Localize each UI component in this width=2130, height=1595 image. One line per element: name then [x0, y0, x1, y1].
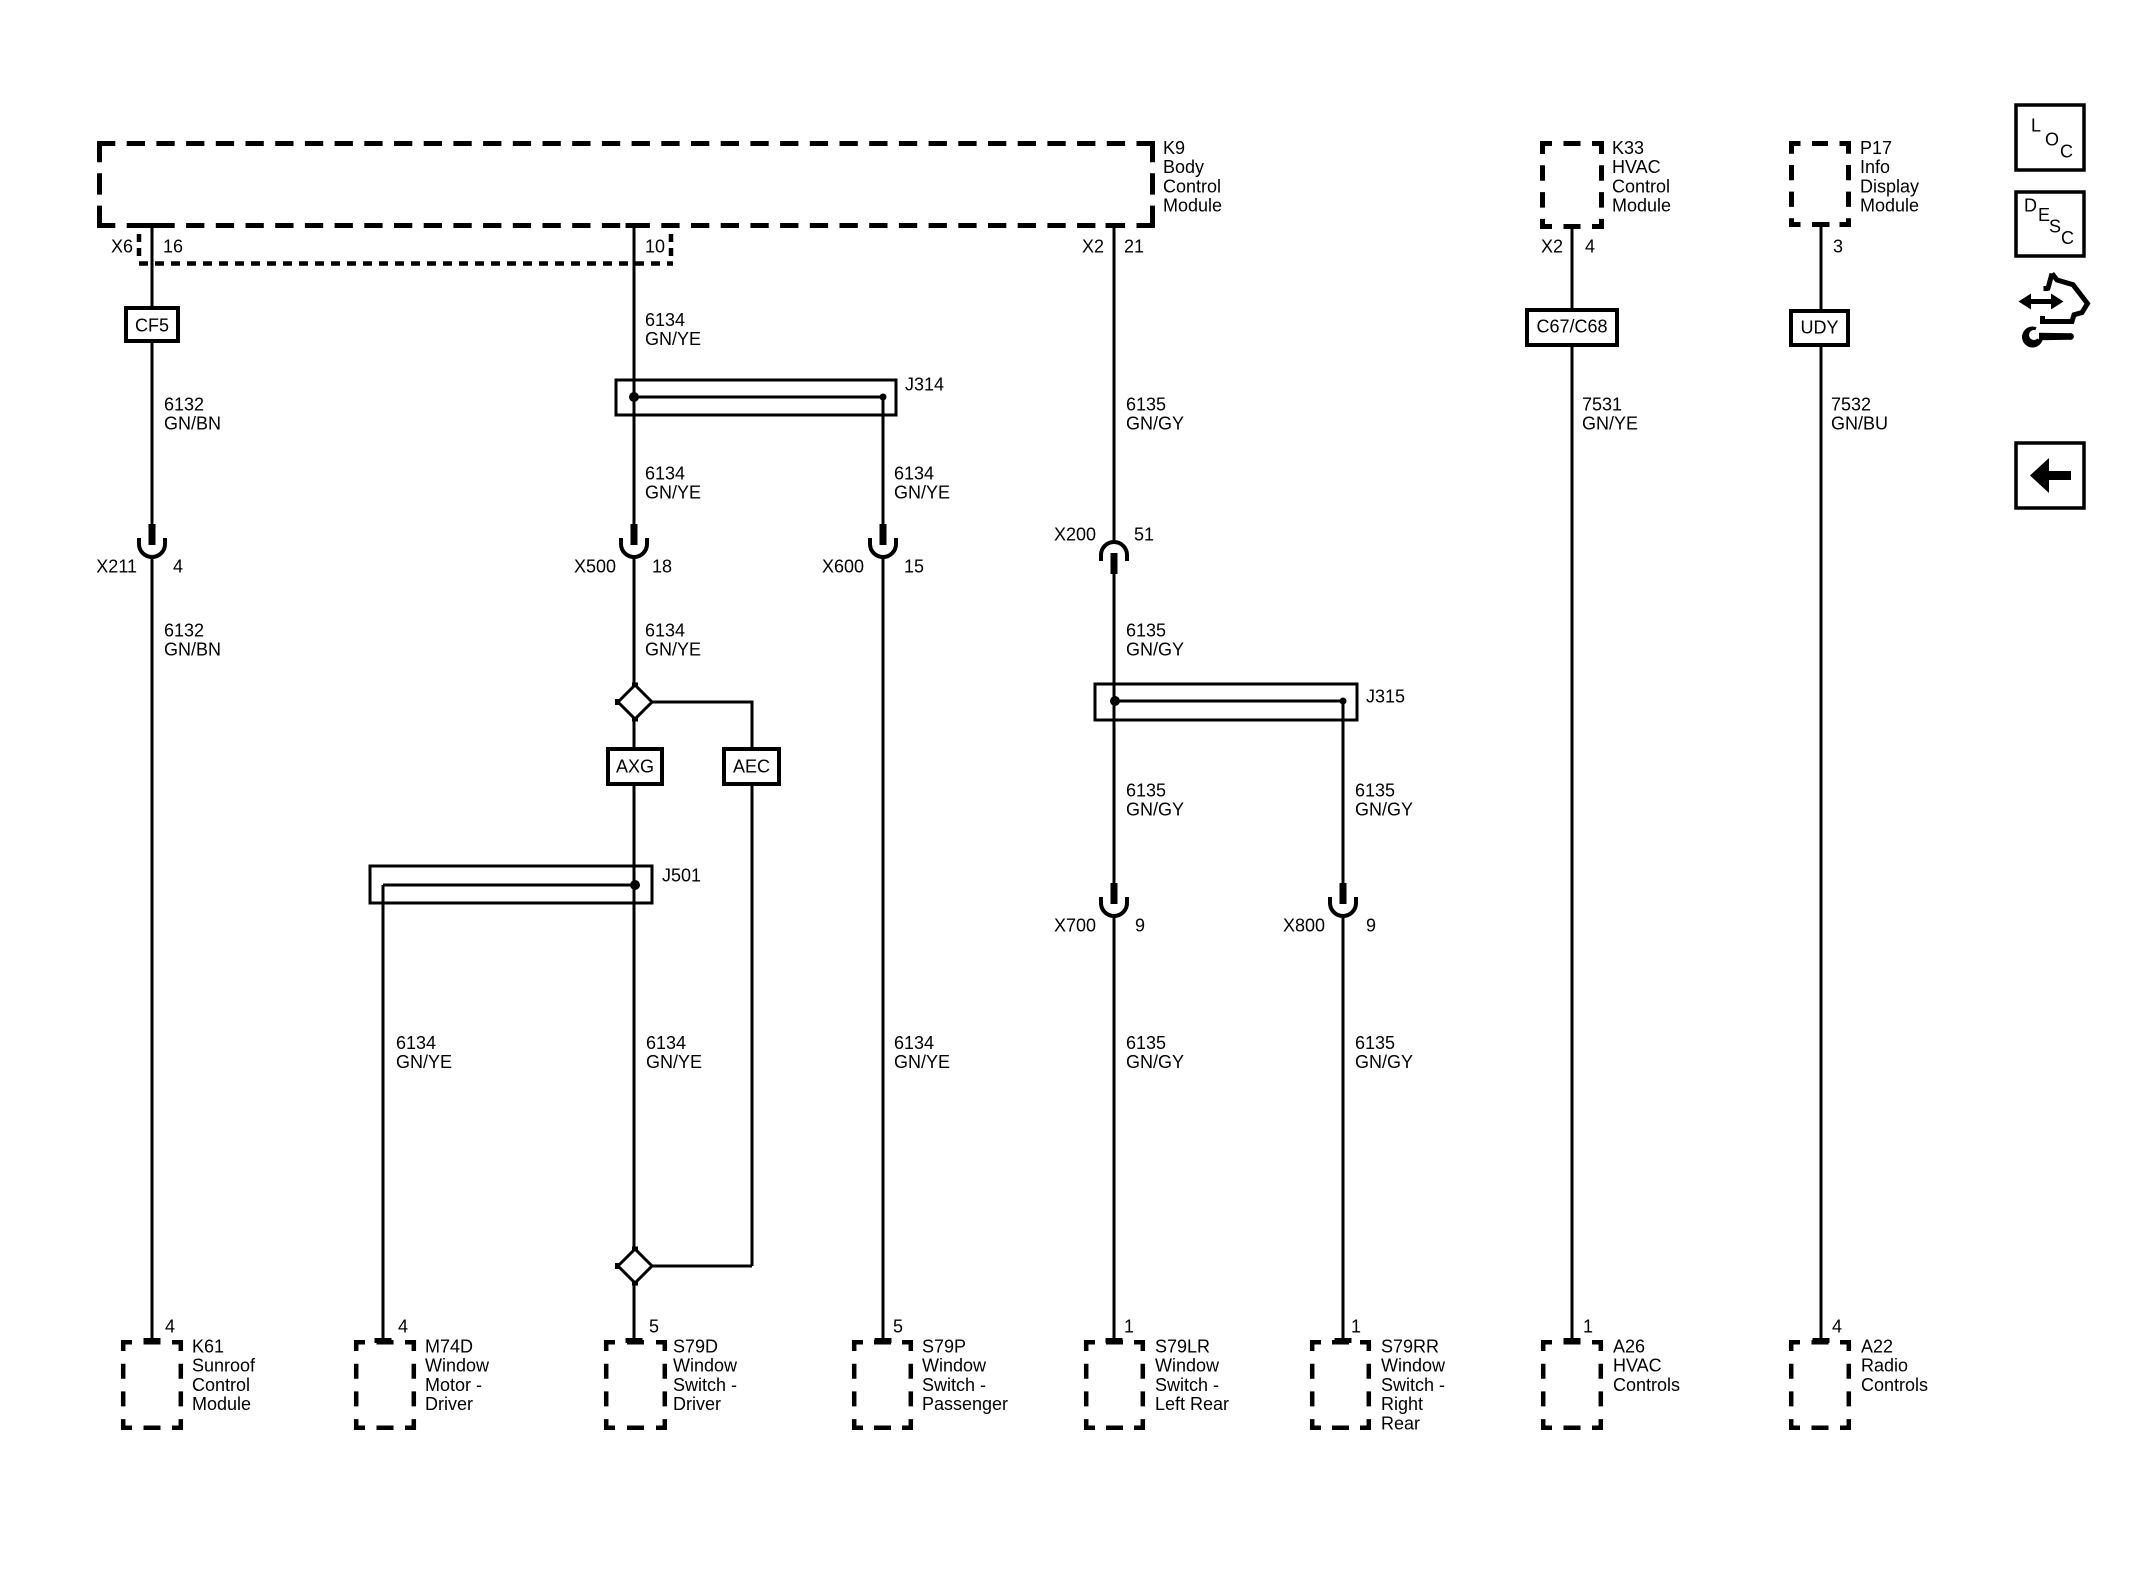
module S79LR Window Switch Left Rear (dashed box) [1084, 1340, 1145, 1430]
wire node to AXG [633, 718, 636, 750]
svg-text:6134: 6134 [645, 464, 685, 484]
wire J315 right drop to X800 [1342, 701, 1345, 885]
svg-text:6134: 6134 [646, 1033, 686, 1053]
splice J315 [1095, 684, 1405, 720]
wire X600 to S79P [882, 558, 885, 1341]
wire X800 to S79RR [1342, 917, 1345, 1341]
module K33 HVAC Control Module (dashed box) [1540, 141, 1604, 229]
wire label 6134 GN/YE (M74D branch) [396, 1033, 452, 1072]
wire label 6135 GN/GY (S79RR branch) [1355, 1033, 1413, 1072]
splice J501 [370, 866, 701, 904]
connector X200 (flipped) [1054, 525, 1154, 575]
svg-text:A22: A22 [1861, 1337, 1893, 1357]
S79P label [922, 1337, 1008, 1415]
svg-text:GN/YE: GN/YE [1582, 413, 1638, 433]
module S79RR Window Switch Right Rear (dashed box) [1310, 1340, 1371, 1430]
svg-text:UDY: UDY [1800, 318, 1838, 338]
svg-text:GN/GY: GN/GY [1355, 799, 1413, 819]
svg-text:Sunroof: Sunroof [192, 1356, 256, 1376]
wire X211 to K61 [151, 558, 154, 1341]
svg-text:4: 4 [173, 557, 183, 577]
svg-text:GN/GY: GN/GY [1355, 1052, 1413, 1072]
module P17 Info Display Module (dashed box) [1789, 141, 1851, 227]
svg-text:X6: X6 [111, 237, 133, 257]
wire C67/C68 to A26 [1571, 345, 1574, 1341]
svg-text:4: 4 [1832, 1317, 1842, 1337]
svg-text:18: 18 [652, 557, 672, 577]
connector X2 pin 21 label [1082, 237, 1144, 257]
svg-text:6135: 6135 [1126, 621, 1166, 641]
wire J501 to M74D [382, 885, 385, 1341]
svg-text:Rear: Rear [1381, 1413, 1420, 1433]
wire X500 to node [633, 558, 636, 686]
svg-text:Window: Window [922, 1356, 987, 1376]
svg-text:X2: X2 [1541, 237, 1563, 257]
tick wire at S79RR [1335, 1338, 1352, 1343]
icon DESC box [2016, 192, 2084, 256]
svg-text:GN/YE: GN/YE [645, 639, 701, 659]
S79D label [673, 1337, 738, 1415]
svg-text:16: 16 [163, 237, 183, 257]
svg-text:S79P: S79P [922, 1337, 966, 1357]
svg-text:X600: X600 [822, 557, 864, 577]
svg-text:Module: Module [1612, 196, 1671, 216]
tick pin 3 at P17 [1813, 222, 1830, 227]
svg-text:GN/BN: GN/BN [164, 413, 221, 433]
svg-text:GN/YE: GN/YE [894, 1052, 950, 1072]
svg-text:Window: Window [425, 1356, 490, 1376]
svg-text:P17: P17 [1860, 138, 1892, 158]
svg-text:Switch -: Switch - [922, 1375, 986, 1395]
module S79P Window Switch Passenger (dashed box) [852, 1340, 913, 1430]
svg-text:J315: J315 [1366, 687, 1405, 707]
module A26 HVAC Controls (dashed box) [1541, 1340, 1603, 1430]
node splice diamond 1 [615, 683, 652, 722]
svg-text:GN/YE: GN/YE [645, 329, 701, 349]
splice J314 [616, 375, 944, 416]
wire label 6135 GN/GY [1126, 395, 1184, 434]
svg-text:Driver: Driver [425, 1394, 473, 1414]
svg-text:M74D: M74D [425, 1337, 473, 1357]
svg-text:9: 9 [1135, 916, 1145, 936]
module K61 Sunroof Control Module (dashed box) [121, 1340, 183, 1430]
svg-text:Module: Module [1860, 196, 1919, 216]
svg-text:GN/BU: GN/BU [1831, 413, 1888, 433]
tick wire at A26 [1564, 1338, 1581, 1343]
svg-text:X211: X211 [96, 557, 137, 577]
connector X700 [1054, 883, 1145, 936]
svg-text:Display: Display [1860, 176, 1919, 196]
svg-text:1: 1 [1351, 1317, 1361, 1337]
K9 label [1163, 138, 1222, 216]
svg-text:Window: Window [673, 1356, 738, 1376]
svg-text:Passenger: Passenger [922, 1394, 1008, 1414]
svg-text:O: O [2045, 130, 2059, 150]
svg-text:4: 4 [1585, 237, 1595, 257]
svg-text:7532: 7532 [1831, 395, 1871, 415]
wire label 6134 GN/YE (S79P branch) [894, 1033, 950, 1072]
svg-text:Control: Control [192, 1375, 250, 1395]
svg-text:Right: Right [1381, 1394, 1423, 1414]
tick wire at S79LR [1106, 1338, 1123, 1343]
svg-text:6135: 6135 [1126, 395, 1166, 415]
connector X800 [1283, 883, 1376, 936]
svg-text:9: 9 [1366, 916, 1376, 936]
svg-text:Motor -: Motor - [425, 1375, 482, 1395]
svg-text:Switch -: Switch - [673, 1375, 737, 1395]
svg-text:6135: 6135 [1355, 781, 1395, 801]
svg-text:Body: Body [1163, 157, 1204, 177]
svg-text:6134: 6134 [894, 464, 934, 484]
svg-text:6132: 6132 [164, 395, 204, 415]
svg-text:S79D: S79D [673, 1337, 718, 1357]
svg-text:10: 10 [645, 237, 665, 257]
wire K9 pin16 to CF5 [151, 228, 154, 309]
tick pin 21 at K9 [1106, 223, 1123, 228]
tick wire at K61 [144, 1338, 161, 1343]
module K9 Body Control Module (dashed box) [97, 141, 1155, 228]
K33 label [1612, 138, 1671, 216]
svg-text:51: 51 [1134, 525, 1154, 545]
fuse AXG [608, 749, 662, 784]
wire P17 to UDY [1820, 227, 1823, 312]
svg-text:S79RR: S79RR [1381, 1337, 1439, 1357]
svg-text:Radio: Radio [1861, 1356, 1908, 1376]
svg-text:X500: X500 [574, 557, 616, 577]
wire branch node to AEC [652, 702, 752, 750]
wire label 6134 GN/YE (left of J314) [645, 464, 701, 503]
wire diamond2 to S79D [633, 1281, 636, 1341]
tick pin 16 at K9 [144, 223, 161, 228]
S79LR label [1155, 1337, 1229, 1415]
connector X2 pin 4 label (K33) [1541, 237, 1595, 257]
wire label 6134 GN/YE (right of J314) [894, 464, 950, 503]
svg-text:Control: Control [1612, 176, 1670, 196]
svg-text:AEC: AEC [733, 757, 770, 777]
wire J314 right drop to X600 [882, 397, 885, 526]
svg-text:C67/C68: C67/C68 [1536, 317, 1607, 337]
svg-text:Switch -: Switch - [1381, 1375, 1445, 1395]
svg-text:GN/YE: GN/YE [396, 1052, 452, 1072]
icon harness double arrow with wrench [2019, 274, 2088, 348]
wire label 6132 GN/BN [164, 395, 221, 434]
wire label 7532 GN/BU [1831, 395, 1888, 434]
svg-text:GN/YE: GN/YE [645, 482, 701, 502]
svg-text:L: L [2031, 116, 2041, 136]
svg-text:5: 5 [649, 1317, 659, 1337]
fuse UDY [1791, 311, 1848, 345]
P17 label [1860, 138, 1919, 216]
svg-text:S: S [2049, 217, 2061, 237]
wire UDY to A22 [1820, 345, 1823, 1341]
node splice diamond 2 [615, 1247, 752, 1286]
X6 pin 16 label [111, 237, 183, 257]
svg-text:J501: J501 [662, 866, 701, 886]
svg-text:6134: 6134 [894, 1033, 934, 1053]
svg-text:A26: A26 [1613, 1337, 1645, 1357]
svg-text:AXG: AXG [616, 757, 654, 777]
svg-text:CF5: CF5 [135, 316, 169, 336]
svg-text:4: 4 [165, 1317, 175, 1337]
wire label 6135 GN/GY (left of J315) [1126, 781, 1184, 820]
wire label 6135 GN/GY [1126, 621, 1184, 660]
svg-text:Controls: Controls [1613, 1375, 1680, 1395]
svg-text:21: 21 [1124, 237, 1144, 257]
tick wire at M74D [375, 1338, 392, 1343]
svg-text:7531: 7531 [1582, 395, 1622, 415]
fuse AEC [724, 749, 779, 784]
module A22 Radio Controls (dashed box) [1789, 1340, 1851, 1430]
icon back arrow box [2016, 443, 2084, 508]
svg-text:GN/BN: GN/BN [164, 639, 221, 659]
svg-text:GN/GY: GN/GY [1126, 799, 1184, 819]
svg-text:X2: X2 [1082, 237, 1104, 257]
svg-text:S79LR: S79LR [1155, 1337, 1210, 1357]
svg-text:C: C [2061, 228, 2074, 248]
svg-text:GN/GY: GN/GY [1126, 1052, 1184, 1072]
svg-text:GN/YE: GN/YE [894, 482, 950, 502]
tick pin 4 at K33 [1564, 224, 1581, 229]
svg-text:6134: 6134 [645, 310, 685, 330]
connector X600 [822, 524, 924, 577]
svg-text:1: 1 [1583, 1317, 1593, 1337]
svg-text:GN/YE: GN/YE [646, 1052, 702, 1072]
svg-text:K61: K61 [192, 1337, 224, 1357]
svg-text:Controls: Controls [1861, 1375, 1928, 1395]
wire label 6132 GN/BN [164, 621, 221, 660]
wire K33 to C67/C68 [1571, 228, 1574, 311]
wire X200 to J315 [1113, 574, 1116, 885]
connector X211 [96, 524, 183, 577]
tick wire at S79P [875, 1338, 892, 1343]
wire AEC down [751, 784, 754, 1266]
svg-text:Module: Module [192, 1394, 251, 1414]
svg-text:X800: X800 [1283, 916, 1325, 936]
svg-text:K33: K33 [1612, 138, 1644, 158]
wire AXG down through J501 to diamond 2 [633, 784, 636, 1251]
svg-text:Driver: Driver [673, 1394, 721, 1414]
wire label 6135 GN/GY (right of J315) [1355, 781, 1413, 820]
svg-text:6134: 6134 [645, 621, 685, 641]
svg-text:6134: 6134 [396, 1033, 436, 1053]
tick pin 10 at K9 [626, 223, 643, 228]
svg-text:6135: 6135 [1126, 1033, 1166, 1053]
svg-text:X700: X700 [1054, 916, 1096, 936]
wire CF5 to X211 [151, 341, 154, 526]
A22 label [1861, 1337, 1928, 1395]
connector X6 on K9 (dashed connector strip) [139, 234, 673, 264]
svg-text:Window: Window [1381, 1356, 1446, 1376]
svg-text:3: 3 [1833, 237, 1843, 257]
wire K9 pin10 to X500 [633, 228, 636, 526]
wire label 6134 GN/YE [645, 621, 701, 660]
svg-text:Window: Window [1155, 1356, 1220, 1376]
svg-text:J314: J314 [905, 375, 944, 395]
svg-text:4: 4 [398, 1317, 408, 1337]
svg-text:Module: Module [1163, 196, 1222, 216]
wire label 6135 GN/GY (S79LR branch) [1126, 1033, 1184, 1072]
svg-text:Control: Control [1163, 176, 1221, 196]
icon LOC box [2016, 105, 2084, 170]
svg-text:1: 1 [1124, 1317, 1134, 1337]
wire K9 pin21 to X200 [1113, 228, 1116, 542]
svg-text:HVAC: HVAC [1612, 157, 1661, 177]
svg-text:K9: K9 [1163, 138, 1185, 158]
svg-text:D: D [2024, 196, 2037, 216]
S79RR label [1381, 1337, 1446, 1434]
svg-text:GN/GY: GN/GY [1126, 413, 1184, 433]
wire X700 to S79LR [1113, 917, 1116, 1341]
A26 label [1613, 1337, 1680, 1395]
svg-text:Switch -: Switch - [1155, 1375, 1219, 1395]
svg-text:GN/GY: GN/GY [1126, 639, 1184, 659]
M74D label [425, 1337, 490, 1415]
module S79D Window Switch Driver (dashed box) [604, 1340, 667, 1430]
svg-text:15: 15 [904, 557, 924, 577]
wire label 7531 GN/YE [1582, 395, 1638, 434]
tick wire at A22 [1813, 1338, 1830, 1343]
svg-text:X200: X200 [1054, 525, 1096, 545]
fuse C67/C68 [1527, 310, 1617, 345]
fuse CF5 [126, 308, 178, 341]
connector X500 [574, 524, 672, 577]
tick wire at S79D [626, 1338, 643, 1343]
svg-text:6132: 6132 [164, 621, 204, 641]
svg-text:Left Rear: Left Rear [1155, 1394, 1229, 1414]
wire label 6134 GN/YE [645, 310, 701, 349]
svg-text:Info: Info [1860, 157, 1890, 177]
module M74D Window Motor Driver (dashed box) [354, 1340, 416, 1430]
svg-text:5: 5 [893, 1317, 903, 1337]
wire label 6134 GN/YE (S79D branch) [646, 1033, 702, 1072]
svg-text:6135: 6135 [1126, 781, 1166, 801]
svg-text:HVAC: HVAC [1613, 1356, 1662, 1376]
K61 label [192, 1337, 256, 1415]
svg-text:6135: 6135 [1355, 1033, 1395, 1053]
svg-text:C: C [2060, 142, 2073, 162]
